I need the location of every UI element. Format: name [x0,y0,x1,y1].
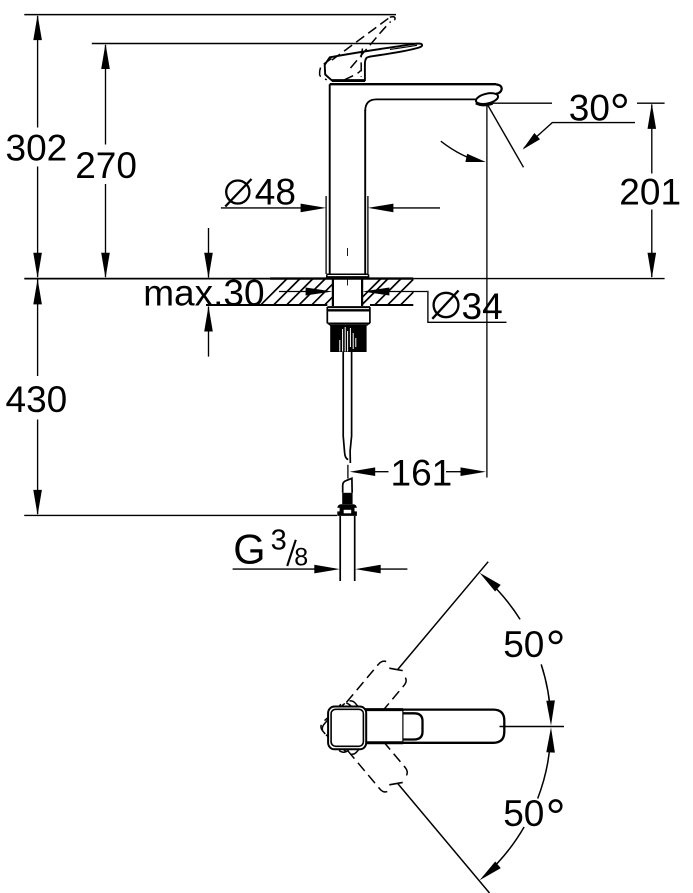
dim diam48 [325,196,327,274]
dashed raised lever tip curl [390,17,395,21]
dim max30 [208,228,210,278]
arc lower arrowheads [480,862,501,881]
spout underside [377,98,476,100]
dim diam34 [279,291,307,293]
lever bottom thick line [332,79,365,82]
svg-text:max.30: max.30 [143,273,264,314]
handle centerline [500,726,565,728]
dashed raised lever neck [361,49,362,78]
handle plan thick neck segs [364,708,403,711]
svg-text:270: 270 [75,145,137,186]
mounting nut black [330,324,366,352]
base flange sides [326,274,328,277]
nut ridges white [340,327,356,352]
ext line 270 [92,43,421,45]
supply pipe right [350,352,352,463]
svg-text:34: 34 [462,286,503,327]
spout nose [496,84,502,94]
spout inner fillet [365,99,376,111]
handle plan outline [331,710,504,743]
axis ticks [347,248,349,256]
dim 161 [347,465,349,479]
handle cap outer [328,707,366,750]
svg-text:3: 3 [271,525,287,557]
svg-text:50: 50 [503,793,544,834]
stream angle arc arrow [441,141,481,161]
svg-text:201: 201 [619,171,681,212]
pipe end piece [343,478,352,493]
collar sides [326,307,328,323]
base flange top [327,273,369,275]
handle plan inner tab [403,713,423,739]
handle cap inner [331,709,363,746]
arc upper arrowheads [480,573,501,592]
leader 30 deg [524,123,635,148]
svg-text:430: 430 [6,379,68,420]
dim 201 [651,105,653,174]
dashed raised lever underside [351,22,391,68]
dashed handle rotated -50 down [318,698,412,799]
svg-text:161: 161 [391,452,453,493]
body left edge [329,84,331,274]
stream line [487,105,523,168]
svg-text:50: 50 [503,624,544,665]
break tick lower [389,782,402,784]
hatching right [362,279,413,306]
ext line spout outlet [488,102,553,104]
svg-text:8: 8 [294,544,308,572]
arc lower 50 [486,827,524,875]
hose nut black [337,504,357,516]
base flange bottom thick [326,276,369,279]
supply pipe left [343,352,348,460]
aerator outline [475,91,499,106]
50 deg diagonal lower [398,784,490,893]
washer bottom thick [327,309,370,311]
dim 302 [37,16,39,128]
svg-text:48: 48 [255,172,296,213]
svg-text:302: 302 [6,128,68,169]
shank left edge [332,279,334,306]
lever blade inner line [390,45,417,49]
dim 430 [37,280,39,377]
dashed raised lever block outline [320,59,332,80]
deck bottom line [206,304,327,306]
handle plan divider [402,710,404,743]
projection line spout [486,106,488,478]
collar step slants [328,323,331,325]
dim 270 [105,45,107,145]
solid lever outline [325,44,422,81]
hose nut white slot [344,510,352,514]
hatching left [261,279,333,306]
ext line top 302 [24,14,396,16]
tail pipe [339,516,341,581]
svg-text:G: G [233,525,265,572]
dashed handle rotated +50 up [320,656,414,757]
shank right edge [361,279,363,306]
body right edge [364,110,366,274]
deck top line [24,278,270,280]
arc upper 50 [486,578,520,619]
dim G3/8 [233,568,316,570]
faucet top edge [330,83,496,85]
collar bottom [327,322,370,324]
50 deg diagonal upper [398,562,489,670]
ext line 430 bottom [24,514,337,516]
aerator bottom thick [476,103,493,105]
pipe end black section [342,493,352,504]
dashed raised lever blade top edge [332,18,390,61]
break tick upper [389,668,402,670]
washer top [327,306,370,308]
